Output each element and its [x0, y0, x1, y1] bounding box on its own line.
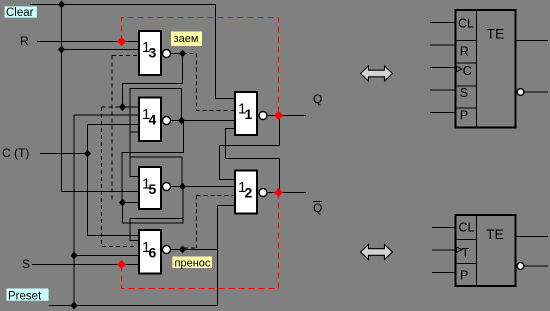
svg-text:CL: CL — [459, 221, 475, 235]
svg-text:T: T — [462, 246, 470, 260]
svg-text:TE: TE — [487, 26, 505, 42]
svg-text:пренос: пренос — [175, 258, 211, 270]
svg-text:Q: Q — [313, 201, 322, 215]
svg-text:S: S — [460, 86, 468, 100]
svg-text:P: P — [460, 269, 468, 283]
svg-text:R: R — [20, 34, 29, 48]
svg-text:3: 3 — [149, 45, 157, 61]
svg-text:P: P — [460, 109, 468, 123]
svg-text:5: 5 — [149, 181, 157, 197]
svg-text:TE: TE — [486, 226, 504, 242]
svg-text:C: C — [463, 64, 472, 78]
svg-text:Preset: Preset — [8, 291, 42, 303]
svg-text:Q: Q — [313, 92, 322, 106]
svg-text:1: 1 — [245, 106, 253, 122]
svg-text:2: 2 — [245, 185, 253, 201]
svg-text:4: 4 — [149, 112, 157, 128]
svg-text:R: R — [460, 45, 469, 59]
svg-text:C (T): C (T) — [2, 146, 29, 160]
svg-text:Clear: Clear — [6, 7, 34, 19]
svg-text:CL: CL — [458, 17, 474, 31]
svg-text:6: 6 — [149, 245, 157, 261]
svg-text:S: S — [22, 257, 30, 271]
svg-text:заем: заем — [174, 33, 199, 45]
